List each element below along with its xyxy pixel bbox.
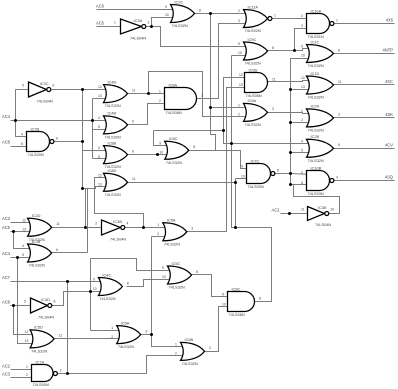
svg-text:74LS32N: 74LS32N: [308, 95, 324, 100]
wire IC6C output to IC7C pin 9: [189, 151, 253, 169]
junction IC7A output: [66, 372, 69, 375]
svg-text:74LS03N: 74LS03N: [308, 191, 324, 196]
svg-text:10: 10: [222, 302, 226, 306]
svg-text:13: 13: [98, 94, 102, 98]
svg-text:8: 8: [272, 46, 274, 50]
svg-text:8: 8: [277, 168, 279, 172]
wire IC3D output net vertical: [90, 259, 92, 331]
svg-text:8: 8: [127, 281, 129, 285]
nor-gate IC11A: [244, 10, 272, 28]
svg-text:3: 3: [201, 93, 203, 97]
wire IC8A output to IC11A pin 3: [197, 24, 251, 99]
svg-text:74LS00N: 74LS00N: [248, 184, 264, 189]
junction IC2B pin 5: [289, 151, 292, 154]
svg-text:4SQ: 4SQ: [385, 174, 393, 179]
wire IC3D net to IC5C pin 9: [91, 259, 174, 271]
svg-text:6: 6: [132, 149, 134, 153]
junction riser to net: [234, 226, 237, 229]
svg-text:9: 9: [93, 277, 95, 281]
svg-text:12: 12: [25, 330, 29, 334]
svg-text:74LS32N: 74LS32N: [105, 103, 121, 108]
svg-text:10: 10: [162, 275, 166, 279]
nand-gate IC10B: [307, 171, 334, 191]
svg-text:6: 6: [338, 143, 340, 147]
svg-text:4NTP: 4NTP: [383, 48, 394, 53]
or-gate IC4C: [98, 278, 122, 296]
junction net IC1D pin 13: [289, 88, 292, 91]
wire IC8C output to IC9C pin 10: [232, 56, 272, 302]
or-gate IC8D: [104, 173, 128, 191]
wire to IC8B pin 4: [83, 150, 110, 152]
svg-text:1: 1: [111, 326, 113, 330]
inverter IC3A: [121, 19, 146, 34]
wire IC7C output to IC10B pin 5: [276, 174, 313, 175]
svg-text:IC7A: IC7A: [36, 359, 45, 364]
svg-text:3: 3: [95, 221, 97, 225]
svg-text:AC5: AC5: [96, 21, 105, 26]
svg-text:1: 1: [336, 18, 338, 22]
wire to IC6C pin 9: [154, 131, 171, 146]
svg-text:3: 3: [209, 346, 211, 350]
wire IC1C output to 4NTP: [334, 53, 395, 55]
svg-text:1: 1: [159, 89, 161, 93]
junction IC3A output: [150, 25, 153, 28]
wire IC6B output net riser: [235, 179, 237, 228]
wire IC3C output to IC4D pin 12: [52, 89, 110, 91]
svg-text:IC2B: IC2B: [32, 239, 41, 244]
svg-text:5: 5: [301, 171, 303, 175]
svg-text:IC6C: IC6C: [169, 136, 178, 141]
or-gate IC9A: [244, 103, 268, 121]
svg-text:74LS32N: 74LS32N: [164, 241, 180, 246]
svg-text:11: 11: [56, 222, 60, 226]
svg-text:IC2A: IC2A: [311, 104, 320, 109]
svg-text:IC5D: IC5D: [34, 325, 43, 330]
svg-text:5: 5: [98, 125, 100, 129]
svg-text:4CV: 4CV: [385, 142, 393, 147]
svg-text:1: 1: [238, 104, 240, 108]
wire net stair to IC6C output net: [211, 108, 216, 151]
svg-text:IC3A: IC3A: [134, 18, 143, 23]
svg-text:AC8: AC8: [2, 299, 11, 304]
svg-text:11: 11: [338, 80, 342, 84]
junction net IC2A pin 2: [289, 121, 292, 124]
inverter IC3C: [29, 82, 51, 97]
svg-text:74LS32N: 74LS32N: [172, 23, 188, 28]
svg-text:3: 3: [338, 113, 340, 117]
wire AC8 to IC7B pin 5: [11, 146, 27, 148]
wire vertical bus x82: [82, 90, 84, 189]
svg-text:1: 1: [301, 109, 303, 113]
wire IC4C output to IC5C pin 10: [127, 280, 174, 287]
svg-text:IC10B: IC10B: [311, 165, 322, 170]
svg-text:4: 4: [21, 133, 23, 137]
wire AC3 to IC2D pin 12: [11, 222, 34, 224]
wire to IC7C pin 10: [236, 178, 253, 180]
junction Y131: [222, 129, 225, 132]
wire IC7A output to IC6B pin 2: [58, 356, 187, 374]
wire AC4 net to IC4D pin 13: [93, 98, 110, 100]
or-gate IC6A: [117, 326, 141, 344]
wire IC6C pin 9 net horizontal: [154, 130, 224, 132]
svg-text:2: 2: [26, 373, 28, 377]
svg-text:2: 2: [301, 118, 303, 122]
inverter IC3E: [308, 207, 329, 221]
svg-text:74LS04N: 74LS04N: [38, 314, 54, 319]
or-gate IC2B: [307, 139, 334, 157]
svg-text:8: 8: [196, 270, 198, 274]
wire AC4 net vertical: [92, 99, 94, 159]
svg-text:2: 2: [148, 20, 150, 24]
svg-text:3: 3: [60, 368, 62, 372]
svg-text:IC8B: IC8B: [108, 140, 117, 145]
svg-text:6: 6: [132, 120, 134, 124]
wire AC4 net to IC7B pin 4: [16, 90, 27, 137]
svg-text:74LS08N: 74LS08N: [166, 110, 182, 115]
svg-text:74LS32N: 74LS32N: [245, 122, 261, 127]
svg-text:74LS32N: 74LS32N: [99, 296, 115, 301]
svg-text:IC8C: IC8C: [232, 286, 241, 291]
svg-text:74LS32N: 74LS32N: [166, 160, 182, 165]
or-gate IC8B: [104, 146, 128, 164]
svg-text:74LS04N: 74LS04N: [110, 236, 126, 241]
svg-text:10: 10: [241, 175, 245, 179]
wire IC3A output: [147, 26, 152, 28]
svg-text:11: 11: [59, 334, 63, 338]
or-gate IC5A: [163, 223, 187, 241]
svg-text:13: 13: [98, 183, 102, 187]
wire net to IC1D pin 13: [291, 89, 313, 91]
svg-text:1: 1: [114, 20, 116, 24]
svg-text:74LS04N: 74LS04N: [37, 98, 53, 103]
svg-text:IC4D: IC4D: [108, 79, 117, 84]
wire AC3 to IC7A pin 2: [11, 377, 33, 379]
wire IC11A output to IC10A pin 2: [273, 18, 307, 20]
svg-text:12: 12: [239, 73, 243, 77]
wire AC5 to IC2D pin 13: [11, 231, 34, 233]
wire AC7 to IC4C pin 9: [11, 281, 105, 283]
svg-text:AC4: AC4: [2, 114, 11, 119]
svg-text:13: 13: [25, 339, 29, 343]
svg-text:11: 11: [272, 77, 276, 81]
wire net to IC8D pin 13: [83, 187, 110, 189]
and-gate IC9D: [245, 73, 268, 93]
svg-text:10: 10: [301, 54, 305, 58]
svg-text:9: 9: [241, 165, 243, 169]
junction Y143: [230, 142, 233, 145]
svg-text:1: 1: [175, 343, 177, 347]
svg-text:IC4C: IC4C: [102, 272, 111, 277]
svg-text:6: 6: [56, 248, 58, 252]
svg-text:10: 10: [331, 207, 335, 211]
svg-text:11: 11: [301, 207, 305, 211]
svg-text:IC3E: IC3E: [318, 205, 327, 210]
wire IC5D output to IC6A pin 2: [55, 338, 123, 340]
wire IC2D output net riser: [85, 189, 87, 228]
svg-text:AC2: AC2: [272, 207, 281, 212]
svg-text:9: 9: [238, 42, 240, 46]
wire IC8B output to IC6C pin 10: [128, 154, 171, 156]
svg-text:AC8: AC8: [2, 140, 11, 145]
wire IC5C output to IC8C pin 9: [192, 275, 235, 297]
svg-text:11: 11: [132, 88, 136, 92]
wire IC2B output riser: [87, 189, 89, 253]
svg-text:74LS04N: 74LS04N: [315, 222, 331, 227]
svg-text:9: 9: [222, 292, 224, 296]
svg-text:IC6B: IC6B: [185, 337, 194, 342]
or-gate IC5D: [30, 330, 54, 348]
junction AC7: [66, 280, 69, 283]
svg-text:2: 2: [301, 14, 303, 18]
svg-text:13: 13: [239, 83, 243, 87]
svg-text:IC7C: IC7C: [251, 158, 260, 163]
svg-text:74LS32N: 74LS32N: [182, 361, 198, 366]
wire IC10B output to 4SQ: [335, 180, 395, 182]
wire IC2C output to IC9A pin 1: [211, 14, 251, 108]
svg-text:74LS00N: 74LS00N: [33, 382, 49, 387]
junction IC7B output: [81, 140, 84, 143]
wire IC6A output: [141, 334, 152, 336]
svg-text:8: 8: [259, 296, 261, 300]
wire AC2 to IC3E input: [281, 213, 308, 215]
svg-text:4: 4: [301, 140, 303, 144]
wire IC6B output to IC8C pin 10: [205, 307, 235, 352]
svg-text:IC3D: IC3D: [41, 297, 50, 302]
svg-text:4: 4: [22, 244, 24, 248]
svg-text:74LS32N: 74LS32N: [29, 263, 45, 268]
svg-text:74LS32N: 74LS32N: [308, 128, 324, 133]
or-gate IC2C: [171, 5, 195, 23]
svg-text:12: 12: [22, 219, 26, 223]
junction AC4 bottom: [16, 256, 19, 259]
nand-gate IC10A: [307, 14, 334, 34]
svg-text:IC8D: IC8D: [108, 168, 117, 173]
svg-text:74LS04N: 74LS04N: [130, 35, 146, 40]
junction AC4: [14, 119, 17, 122]
wire IC9D output to IC1D pin 12: [268, 81, 313, 82]
svg-text:2: 2: [238, 9, 240, 13]
nand-gate IC7B: [27, 132, 54, 152]
junction IC3C output: [81, 88, 84, 91]
svg-text:AC5: AC5: [2, 225, 11, 230]
svg-text:2: 2: [159, 99, 161, 103]
svg-text:2: 2: [238, 113, 240, 117]
svg-text:IC2B: IC2B: [311, 134, 320, 139]
svg-text:IC9C: IC9C: [248, 37, 257, 42]
svg-text:3: 3: [191, 227, 193, 231]
svg-text:IC5C: IC5C: [172, 261, 181, 266]
or-gate IC9C: [244, 42, 268, 60]
junction IC3B output: [142, 226, 145, 229]
wire IC4B output to IC8A pin 2: [128, 104, 165, 125]
svg-text:10: 10: [159, 151, 163, 155]
svg-text:2: 2: [175, 352, 177, 356]
wire AC4 net to IC4B pin 5: [93, 129, 110, 131]
wire AC4 net to IC8B pin 5: [93, 158, 110, 160]
junction IC8B output: [156, 153, 159, 156]
svg-text:74LS32N: 74LS32N: [169, 285, 185, 290]
svg-text:2: 2: [157, 232, 159, 236]
svg-text:8: 8: [338, 48, 340, 52]
junction AC2 right: [288, 212, 291, 215]
svg-text:8: 8: [199, 8, 201, 12]
svg-text:12: 12: [98, 85, 102, 89]
or-gate IC2B: [28, 244, 52, 262]
svg-text:3: 3: [272, 107, 274, 111]
svg-text:13: 13: [22, 228, 26, 232]
svg-text:9: 9: [159, 142, 161, 146]
svg-text:5: 5: [301, 149, 303, 153]
wire IC7B output: [54, 141, 83, 143]
svg-text:IC6A: IC6A: [121, 320, 130, 325]
svg-text:IC3C: IC3C: [40, 81, 49, 86]
and-gate IC8C: [228, 292, 255, 312]
wire IC3C input: [16, 89, 29, 91]
wire IC9A output to IC2A pin 1: [268, 113, 313, 114]
wire IC8D output: [128, 182, 236, 184]
svg-text:4: 4: [127, 221, 129, 225]
or-gate IC2A: [307, 109, 334, 127]
svg-text:10: 10: [93, 287, 97, 291]
svg-text:5: 5: [22, 83, 24, 87]
junction AC5: [12, 230, 15, 233]
junction IC2D output: [84, 226, 87, 229]
wire IC9D pin 12 net to IC2B pin 4: [224, 78, 313, 144]
wire IC4D output to IC8A pin 1: [128, 93, 165, 95]
svg-text:IC9A: IC9A: [248, 98, 257, 103]
wire IC9C pin 10 stub: [232, 55, 251, 57]
svg-text:10: 10: [238, 51, 242, 55]
junction IC3D output: [89, 290, 92, 293]
wire AC8 net to IC5D pin 12: [14, 306, 37, 335]
junction IC9C output: [293, 49, 296, 52]
svg-text:74LS32N: 74LS32N: [31, 349, 47, 354]
wire IC4D output to IC9A pin 2: [149, 72, 251, 117]
wire IC2B output: [52, 252, 88, 254]
svg-text:12: 12: [301, 76, 305, 80]
wire IC8C output: [255, 301, 272, 303]
wire AC6 to IC2C pin 9: [97, 9, 177, 11]
wire AC5 net to IC2B pin 4: [14, 232, 34, 249]
junction IC2C output: [209, 12, 212, 15]
svg-text:6: 6: [301, 181, 303, 185]
wire AC4 net to IC5D pin 13: [18, 258, 37, 344]
wire IC9C output to IC1C pin 9: [268, 49, 313, 51]
junction IC7C output: [289, 172, 292, 175]
svg-text:13: 13: [301, 85, 305, 89]
wire IC3A output to IC2C pin 10: [152, 18, 177, 27]
wire net to IC2B pin 5: [291, 152, 313, 154]
or-gate IC4D: [104, 85, 128, 103]
svg-text:IC11A: IC11A: [248, 4, 259, 9]
wire AC2 to IC7A pin 1: [11, 369, 33, 371]
wire AC5 to IC3A input: [97, 26, 121, 28]
or-gate IC2D: [28, 218, 52, 236]
junction bus x82: [81, 187, 84, 190]
svg-text:IC5A: IC5A: [167, 218, 176, 223]
svg-text:5: 5: [22, 253, 24, 257]
svg-text:1: 1: [157, 223, 159, 227]
or-gate IC1C: [307, 44, 334, 62]
svg-text:IC2D: IC2D: [32, 213, 41, 218]
svg-text:IC3B: IC3B: [113, 219, 122, 224]
svg-text:IC9D: IC9D: [249, 67, 258, 72]
wire IC3A output to IC9C pin 9: [152, 27, 251, 47]
svg-text:10: 10: [165, 13, 169, 17]
wire IC10A pin 3 to IC9C output net: [295, 29, 307, 51]
svg-text:1: 1: [26, 365, 28, 369]
wire IC3B output net to IC8D pin 12: [95, 178, 144, 228]
wire IC3E output loop: [294, 185, 340, 214]
and-gate IC8A: [165, 88, 197, 110]
svg-text:IC8A: IC8A: [169, 82, 178, 87]
junction IC6A output: [150, 333, 153, 336]
wire IC6A output net to IC6B pin 1: [152, 237, 187, 347]
svg-text:9: 9: [301, 45, 303, 49]
wire IC2D output to IC3B input: [52, 227, 102, 229]
svg-text:AC3: AC3: [2, 372, 11, 377]
svg-text:1: 1: [274, 13, 276, 17]
or-gate IC4B: [104, 116, 128, 134]
svg-text:5: 5: [98, 155, 100, 159]
svg-text:AC2: AC2: [2, 364, 11, 369]
junction IC8D output: [234, 181, 237, 184]
svg-text:9: 9: [24, 299, 26, 303]
svg-text:4: 4: [98, 116, 100, 120]
nand-gate IC7A: [32, 365, 58, 382]
svg-text:4X5: 4X5: [386, 18, 394, 23]
junction IC10B pin 6: [289, 183, 292, 186]
or-gate IC6B: [181, 342, 205, 360]
svg-text:8: 8: [54, 299, 56, 303]
wire IC3B output to IC5A pin 1: [126, 227, 171, 229]
svg-text:2: 2: [111, 335, 113, 339]
svg-text:3: 3: [301, 24, 303, 28]
svg-text:IC7B: IC7B: [31, 126, 40, 131]
svg-text:IC1C: IC1C: [311, 39, 320, 44]
svg-text:9: 9: [165, 5, 167, 9]
wire IC1D output to 4SC: [334, 84, 395, 86]
svg-text:3: 3: [238, 19, 240, 23]
or-gate IC6C: [165, 141, 189, 159]
svg-text:11: 11: [132, 177, 136, 181]
wire AC4 to IC4B pin 4: [11, 120, 110, 122]
inverter IC3D: [31, 298, 52, 313]
wire IC3D output to IC4C pin 10: [52, 292, 105, 306]
svg-text:AC7: AC7: [2, 275, 11, 280]
svg-text:4: 4: [336, 175, 338, 179]
svg-text:74LS02N: 74LS02N: [245, 28, 261, 33]
svg-text:5: 5: [21, 142, 23, 146]
wire AC7 net vertical: [67, 282, 69, 374]
svg-text:4SK: 4SK: [385, 112, 393, 117]
svg-text:74LS32N: 74LS32N: [105, 192, 121, 197]
wire AC8 to IC3D input: [11, 305, 31, 307]
svg-text:74LS08N: 74LS08N: [229, 312, 245, 317]
junction IC4D output: [147, 92, 150, 95]
wire IC5A pin 2 stub: [152, 236, 169, 238]
junction AC8: [12, 304, 15, 307]
wire IC2A output to 4SK: [334, 117, 395, 119]
svg-text:6: 6: [53, 83, 55, 87]
or-gate IC5C: [168, 266, 192, 284]
svg-text:9: 9: [162, 266, 164, 270]
svg-text:74LS32N: 74LS32N: [105, 135, 121, 140]
wire IC5A output to IC9D pin 13: [187, 88, 251, 232]
wire IC2B output to 4CV: [334, 148, 395, 150]
nand-gate IC7C: [247, 164, 275, 184]
svg-text:74LS32N: 74LS32N: [308, 158, 324, 163]
